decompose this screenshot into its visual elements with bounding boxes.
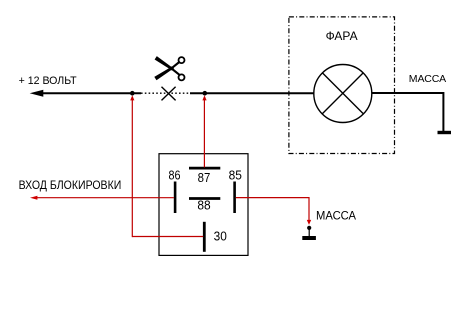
- relay pin 87 bar: [189, 167, 220, 170]
- svg-text:87: 87: [198, 170, 211, 185]
- red up arrowhead at node B: [202, 95, 206, 100]
- wire lamp to right corner: [372, 92, 444, 94]
- relay pin 85 bar: [233, 182, 236, 214]
- relay pin 86 bar: [174, 182, 177, 214]
- lamp L1 circle: [314, 65, 372, 123]
- scissors icon: [154, 56, 184, 80]
- red up arrowhead at node A: [130, 95, 134, 100]
- red down arrowhead at ground: [307, 220, 311, 225]
- red wire node A vertical: [131, 97, 133, 237]
- svg-text:ВХОД БЛОКИРОВКИ: ВХОД БЛОКИРОВКИ: [19, 178, 122, 192]
- ground symbol lower: [302, 236, 316, 240]
- wire dot to ground bar: [308, 228, 310, 237]
- red blocking-input arrowhead (left): [30, 196, 37, 200]
- relay pin 88 bar: [189, 197, 220, 200]
- headlight enclosure box FARA (dash-dot): [289, 17, 395, 154]
- junction node B on main wire: [203, 91, 208, 96]
- svg-text:МАССА: МАССА: [409, 73, 447, 85]
- ground symbol right: [438, 131, 452, 134]
- cut mark X: [162, 87, 176, 101]
- svg-text:30: 30: [214, 229, 227, 244]
- svg-text:ФАРА: ФАРА: [326, 29, 358, 43]
- junction node A on main wire: [130, 91, 135, 96]
- red wire pin 85 to ground: [236, 198, 309, 220]
- red wire blocking input to pin 86: [37, 197, 174, 199]
- junction dot at lower ground: [307, 226, 311, 230]
- svg-text:МАССА: МАССА: [316, 210, 356, 222]
- red wire node B to pin 87: [203, 97, 205, 167]
- relay pin 30 bar: [203, 222, 206, 252]
- wire right vertical drop: [442, 92, 444, 131]
- svg-text:+ 12 ВОЛЬТ: + 12 ВОЛЬТ: [19, 75, 77, 87]
- wire main left segment: [42, 92, 141, 94]
- red wire to pin 30: [132, 236, 203, 238]
- relay K1 box: [159, 154, 248, 256]
- wire dotted cut section: [141, 92, 190, 94]
- wire main middle segment: [190, 92, 314, 94]
- svg-text:88: 88: [197, 197, 210, 212]
- lamp L1 cross: [322, 73, 363, 114]
- svg-text:85: 85: [229, 167, 242, 182]
- wire arrowhead +12V (left): [30, 90, 44, 97]
- svg-text:86: 86: [169, 167, 181, 182]
